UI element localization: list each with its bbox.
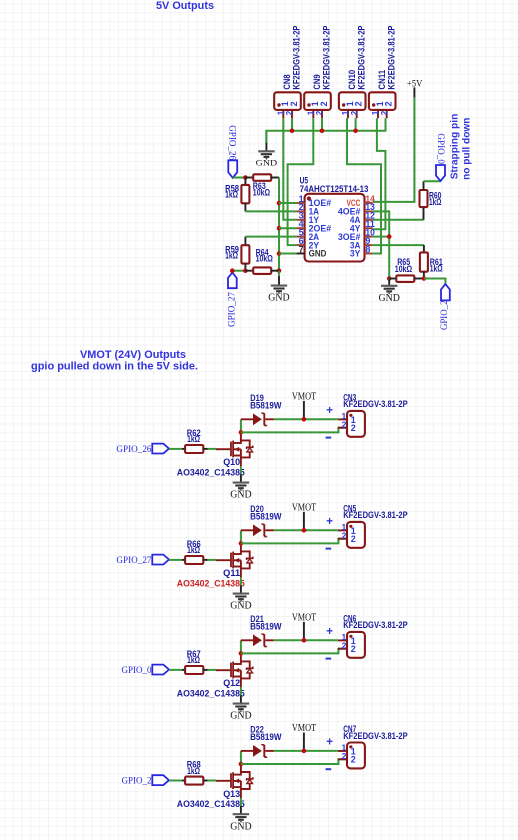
svg-text:+: +	[326, 626, 333, 638]
junction at drain	[239, 762, 244, 767]
wire: diode cathode to CN pin 1	[274, 418, 338, 420]
resistor R59 1k series	[225, 237, 249, 271]
svg-text:GND: GND	[379, 293, 401, 304]
svg-text:CN10: CN10	[347, 70, 357, 90]
wire: drain node	[240, 419, 242, 431]
connector CN5 KF2EDGV-3.81-2P	[326, 504, 408, 550]
resistor R63 10k pulldown	[245, 174, 279, 197]
svg-text:GND: GND	[268, 293, 290, 304]
svg-text:VMOT: VMOT	[292, 722, 317, 734]
svg-text:2: 2	[319, 101, 329, 106]
svg-text:VMOT: VMOT	[292, 612, 317, 624]
svg-text:AO3402_C14385: AO3402_C14385	[177, 579, 245, 589]
wire: CN10 pin2 drop	[355, 118, 357, 131]
wire: pin1 1OE# to rail	[279, 202, 296, 204]
svg-text:GND: GND	[230, 711, 252, 722]
svg-text:Q10: Q10	[223, 457, 240, 467]
junction on GND bus at CN10 pin2	[353, 129, 358, 134]
svg-text:GPIO_27: GPIO_27	[116, 555, 151, 566]
svg-text:2: 2	[342, 640, 347, 650]
resistor R66 1k gate series	[182, 539, 208, 564]
junction at GPIO_27	[230, 268, 235, 273]
wire: resistor to gate	[208, 448, 217, 450]
junction at VMOT	[302, 417, 307, 422]
svg-text:Q13: Q13	[223, 789, 240, 799]
transistor Q12 AO3402 N-MOSFET	[177, 653, 253, 699]
svg-text:1: 1	[277, 110, 286, 115]
junction at R58 top	[243, 175, 248, 180]
power flag VMOT	[292, 722, 317, 751]
wire: R58 to 1A (pin 2)	[245, 210, 296, 212]
svg-text:74AHCT125T14-13: 74AHCT125T14-13	[300, 184, 369, 194]
svg-text:KF2EDGV-3.81-2P: KF2EDGV-3.81-2P	[343, 620, 408, 630]
svg-text:10kΩ: 10kΩ	[256, 254, 273, 264]
svg-text:GND: GND	[309, 249, 327, 259]
net flag GPIO_26 (top)	[227, 125, 238, 178]
power flag VMOT	[292, 391, 317, 420]
svg-text:1kΩ: 1kΩ	[187, 655, 200, 665]
svg-text:B5819W: B5819W	[250, 400, 282, 410]
svg-text:Q11: Q11	[223, 568, 240, 578]
junction at VMOT	[302, 528, 307, 533]
junction on GND bus at CN9 pin2	[320, 129, 325, 134]
wire: pin13 4OE# to GND rail right	[373, 211, 390, 278]
wire: resistor to gate	[208, 780, 217, 782]
wire: CN11 pin1 to 4Y (pin 11)	[373, 118, 386, 229]
svg-text:1: 1	[307, 110, 316, 115]
wire: pin9 3A to R61	[373, 244, 424, 246]
buffer IC U5 74AHCT125T14-13	[296, 176, 374, 262]
net flag GPIO_0 (driver input)	[122, 665, 170, 676]
wire: OE/GND rail	[278, 178, 280, 271]
resistor R62 1k gate series	[182, 428, 208, 453]
junction at VMOT	[302, 638, 307, 643]
svg-text:+: +	[326, 516, 333, 528]
junction at drain	[239, 651, 244, 656]
svg-text:CN8: CN8	[282, 74, 292, 89]
wire: flag to resistor	[169, 559, 182, 561]
junction at R59 bottom	[243, 268, 248, 273]
ground: mid-left GND	[268, 271, 290, 304]
junction at drain	[239, 541, 244, 546]
wire: resistor to gate	[208, 669, 217, 671]
svg-text:7: 7	[299, 244, 304, 254]
svg-text:2: 2	[351, 423, 356, 433]
wire: CN8 pin1 to 1Y (pin 3)	[283, 118, 296, 220]
junction rail pin7	[277, 251, 282, 256]
diode D20 B5819W schottky	[241, 504, 282, 538]
svg-text:2: 2	[380, 110, 389, 115]
svg-text:Strapping pin: Strapping pin	[450, 114, 461, 180]
svg-text:GPIO_26: GPIO_26	[227, 125, 237, 160]
svg-text:+: +	[326, 737, 333, 749]
wire: drain node	[240, 640, 242, 652]
svg-text:2: 2	[384, 101, 394, 106]
wire: CN9 pin2 drop	[321, 118, 323, 131]
connector CN11 KF2EDGV-3.81-2P	[369, 26, 397, 119]
svg-text:KF2EDGV-3.81-2P: KF2EDGV-3.81-2P	[356, 26, 366, 90]
svg-text:GPIO_2: GPIO_2	[440, 300, 450, 330]
wire: R60 to GPIO_0 flag	[424, 180, 441, 182]
junction rail pin1	[277, 201, 282, 206]
ground: under transistor	[230, 798, 252, 832]
resistor R58 1k series	[225, 178, 249, 212]
svg-text:B5819W: B5819W	[250, 732, 282, 742]
svg-text:AO3402_C14385: AO3402_C14385	[177, 468, 245, 478]
svg-text:2: 2	[351, 644, 356, 654]
net flag GPIO_2 (driver input)	[122, 775, 170, 786]
wire: drain to CN pin 2	[241, 428, 347, 433]
svg-text:B5819W: B5819W	[250, 621, 282, 631]
power flag VMOT	[292, 612, 317, 641]
wire: drain to CN pin 2	[241, 759, 347, 764]
svg-text:Q12: Q12	[223, 678, 240, 688]
resistor R64 10k pulldown	[245, 247, 279, 274]
svg-text:AO3402_C14385: AO3402_C14385	[177, 689, 245, 699]
resistor R68 1k gate series	[182, 760, 208, 785]
svg-text:5V Outputs: 5V Outputs	[156, 0, 214, 12]
resistor R61 1k series	[420, 245, 443, 278]
svg-text:10kΩ: 10kΩ	[395, 264, 412, 274]
svg-text:VMOT: VMOT	[292, 502, 317, 514]
wire: flag to resistor	[169, 780, 182, 782]
connector CN3 KF2EDGV-3.81-2P	[326, 393, 408, 439]
svg-text:GND: GND	[230, 821, 252, 832]
svg-text:2: 2	[351, 755, 356, 765]
junction at drain	[239, 430, 244, 435]
wire: diode cathode to CN pin 1	[274, 639, 338, 641]
svg-text:2: 2	[342, 751, 347, 761]
svg-text:2: 2	[289, 101, 299, 106]
connector CN6 KF2EDGV-3.81-2P	[326, 614, 408, 660]
svg-text:1: 1	[371, 110, 380, 115]
power flag VMOT	[292, 502, 317, 531]
wire: +5V to VCC pin 14	[373, 98, 415, 202]
junction at R61 bottom	[422, 276, 427, 281]
wire: R59 to 2A (pin 5)	[245, 236, 296, 238]
ground: bus GND symbol	[256, 131, 277, 168]
wire: GPIO_27 to R59/R64	[232, 270, 245, 272]
wire: flag to resistor	[169, 448, 182, 450]
junction rail pin4	[277, 226, 282, 231]
wire: pin4 2OE# to rail	[279, 227, 296, 229]
diode D19 B5819W schottky	[241, 393, 282, 427]
svg-text:2: 2	[342, 530, 347, 540]
svg-text:+: +	[326, 405, 333, 417]
svg-text:2: 2	[315, 110, 324, 115]
svg-text:KF2EDGV-3.81-2P: KF2EDGV-3.81-2P	[322, 26, 332, 90]
junction on GND bus at CN8 pin2	[290, 129, 295, 134]
transistor Q13 AO3402 N-MOSFET	[177, 763, 253, 809]
transistor Q11 AO3402 N-MOSFET	[177, 543, 253, 589]
wire: pin12 4A to R60	[373, 219, 424, 221]
svg-text:1kΩ: 1kΩ	[225, 251, 238, 261]
junction rail pin10	[387, 234, 392, 239]
svg-text:+5V: +5V	[407, 78, 423, 88]
svg-text:2: 2	[342, 419, 347, 429]
svg-text:2: 2	[350, 110, 359, 115]
wire: CN10 pin1 to 3Y (pin 8)	[347, 118, 381, 253]
wire: diode cathode to CN pin 1	[274, 529, 338, 531]
power flag +5V	[407, 78, 423, 97]
wire: flag to resistor	[169, 669, 182, 671]
junction at VMOT	[302, 749, 307, 754]
svg-text:KF2EDGV-3.81-2P: KF2EDGV-3.81-2P	[343, 510, 408, 520]
net flag GPIO_27 (driver input)	[116, 555, 169, 566]
svg-text:GPIO_0: GPIO_0	[435, 133, 445, 164]
svg-text:GND: GND	[256, 158, 277, 168]
svg-text:1kΩ: 1kΩ	[187, 766, 200, 776]
wire: pin7 GND to rail	[279, 253, 296, 255]
svg-text:AO3402_C14385: AO3402_C14385	[177, 799, 245, 809]
wire: GPIO_26 flag to R58/R63	[233, 177, 246, 179]
resistor R65 10k pulldown	[389, 257, 424, 282]
svg-text:GND: GND	[230, 601, 252, 612]
junction rail R65	[387, 276, 392, 281]
wire: drain node	[240, 751, 242, 763]
svg-text:10kΩ: 10kΩ	[253, 187, 270, 197]
svg-text:1kΩ: 1kΩ	[430, 264, 443, 274]
resistor R67 1k gate series	[182, 649, 208, 674]
ground: under transistor	[230, 466, 252, 500]
wire: drain to CN pin 2	[241, 539, 347, 544]
svg-text:GPIO_26: GPIO_26	[116, 444, 151, 455]
svg-text:2: 2	[285, 110, 294, 115]
wire: resistor to gate	[208, 559, 217, 561]
net flag GPIO_0	[435, 133, 445, 181]
svg-text:GPIO_2: GPIO_2	[122, 776, 152, 787]
net flag GPIO_27 (left)	[227, 273, 237, 328]
svg-text:GND: GND	[230, 490, 252, 501]
svg-text:CN11: CN11	[377, 70, 387, 90]
svg-text:GPIO_27: GPIO_27	[227, 292, 237, 327]
connector CN7 KF2EDGV-3.81-2P	[326, 724, 408, 770]
svg-text:KF2EDGV-3.81-2P: KF2EDGV-3.81-2P	[386, 26, 396, 90]
svg-text:KF2EDGV-3.81-2P: KF2EDGV-3.81-2P	[292, 26, 302, 90]
wire: CN9 pin1 to 2Y (pin 6)	[288, 118, 314, 245]
diode D22 B5819W schottky	[241, 724, 282, 758]
svg-text:VMOT (24V) Outputs: VMOT (24V) Outputs	[80, 349, 186, 361]
connector CN9 KF2EDGV-3.81-2P	[304, 26, 332, 119]
ground: mid-right GND	[379, 279, 401, 304]
svg-text:1kΩ: 1kΩ	[429, 197, 441, 207]
wire: diode cathode to CN pin 1	[274, 750, 338, 752]
svg-text:1: 1	[341, 110, 350, 115]
svg-text:1kΩ: 1kΩ	[225, 189, 238, 199]
svg-text:8: 8	[365, 244, 370, 254]
svg-text:2: 2	[354, 101, 364, 106]
net flag GPIO_26 (driver input)	[116, 444, 169, 455]
svg-text:2: 2	[351, 534, 356, 544]
wire: pin10 3OE# to rail	[373, 236, 390, 238]
svg-text:gpio pulled down in the 5V sid: gpio pulled down in the 5V side.	[31, 361, 198, 373]
svg-text:B5819W: B5819W	[250, 511, 282, 521]
net flag GPIO_2 (right)	[440, 284, 450, 330]
svg-text:VMOT: VMOT	[292, 391, 317, 403]
svg-text:GPIO_0: GPIO_0	[122, 665, 152, 676]
connector CN10 KF2EDGV-3.81-2P	[339, 26, 367, 119]
svg-text:KF2EDGV-3.81-2P: KF2EDGV-3.81-2P	[343, 399, 408, 409]
svg-text:1kΩ: 1kΩ	[187, 434, 200, 444]
ground: under transistor	[230, 687, 252, 721]
svg-text:no pull down: no pull down	[461, 118, 472, 180]
svg-text:3Y: 3Y	[350, 249, 361, 259]
svg-text:1kΩ: 1kΩ	[187, 545, 200, 555]
resistor R60 1k series (no pulldown)	[420, 181, 442, 220]
ground: under transistor	[230, 577, 252, 611]
diode D21 B5819W schottky	[241, 614, 282, 648]
wire: CN8 pin2 drop	[291, 118, 293, 131]
wire: drain node	[240, 530, 242, 542]
junction rail R64	[277, 268, 282, 273]
connector CN8 KF2EDGV-3.81-2P	[274, 26, 302, 119]
wire: GND bus under connectors	[266, 118, 385, 143]
wire: drain to CN pin 2	[241, 649, 347, 654]
svg-text:CN9: CN9	[312, 74, 322, 89]
transistor Q10 AO3402 N-MOSFET	[177, 432, 253, 478]
wire: to GPIO_2 flag	[424, 279, 446, 285]
svg-text:KF2EDGV-3.81-2P: KF2EDGV-3.81-2P	[343, 731, 408, 741]
